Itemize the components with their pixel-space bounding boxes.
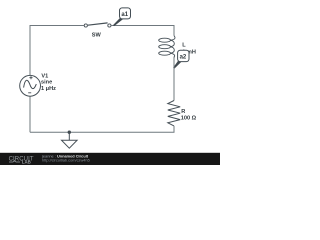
footer bar [0, 153, 220, 165]
footer logo CIRCUIT [9, 156, 34, 162]
label L [182, 43, 186, 49]
label L value 1 mH [182, 50, 196, 56]
wire right middle segment [173, 57, 175, 101]
svg-text:a1: a1 [121, 12, 128, 18]
footer text line2 [42, 157, 90, 162]
label V1 [41, 74, 48, 80]
svg-text:R: R [181, 109, 185, 115]
svg-text:sine: sine [41, 80, 52, 86]
probe a1 [113, 8, 131, 26]
wire bottom segment [30, 126, 174, 132]
svg-text:LAB: LAB [22, 160, 31, 165]
wire top-left segment [30, 26, 84, 76]
probe a2 [173, 50, 189, 69]
label V1 type sine [41, 80, 52, 86]
label R [181, 109, 185, 115]
wire left-bottom segment [29, 96, 31, 132]
label V1 value 1 uHz [41, 86, 56, 92]
label SW [92, 32, 102, 38]
label R value 100 Ohm [181, 116, 197, 122]
svg-text:a2: a2 [180, 54, 187, 60]
footer logo LAB [9, 160, 31, 165]
svg-text:SW: SW [92, 32, 102, 38]
resistor R [168, 101, 180, 126]
inductor L [159, 36, 175, 58]
footer text line1 [41, 153, 89, 158]
wire top-right segment [111, 26, 174, 36]
svg-text:http://circuitlab.com/czw4h5: http://circuitlab.com/czw4h5 [42, 157, 90, 162]
switch SW [84, 23, 111, 27]
voltage source V1 [20, 75, 41, 96]
ground [62, 132, 78, 148]
junction ground node [68, 131, 71, 134]
svg-text:1 μHz: 1 μHz [41, 86, 56, 92]
svg-text:L: L [182, 43, 186, 49]
svg-text:100 Ω: 100 Ω [181, 116, 197, 122]
